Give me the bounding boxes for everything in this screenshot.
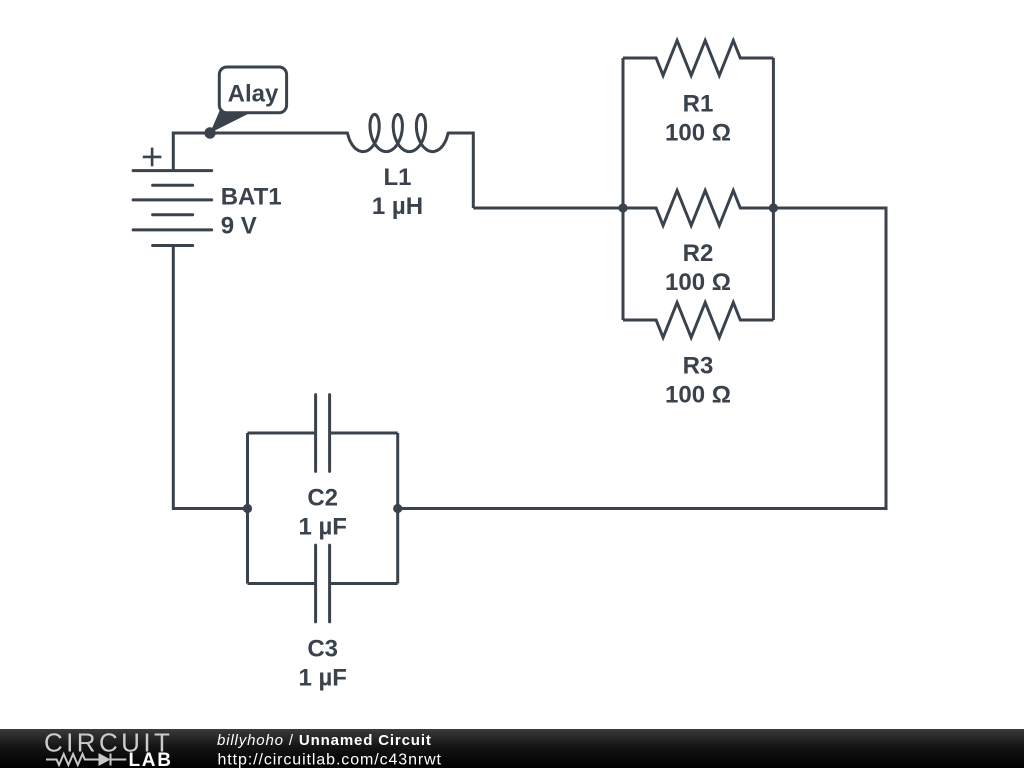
junction left of R2 bbox=[618, 203, 627, 212]
wire right side down bbox=[398, 208, 886, 509]
logo diode triangle bbox=[99, 753, 111, 766]
resistor R3 bbox=[623, 303, 773, 338]
logo resistor-diode symbol bbox=[46, 754, 126, 766]
junction left of capacitors bbox=[243, 504, 252, 513]
wire main to resistor bank bbox=[473, 207, 623, 210]
svg-text:C3: C3 bbox=[307, 635, 338, 662]
resistor R2 bbox=[623, 191, 773, 226]
svg-text:1 µF: 1 µF bbox=[298, 513, 347, 540]
svg-text:L1: L1 bbox=[383, 164, 411, 191]
capacitor bank left rail bbox=[246, 433, 249, 584]
svg-text:9 V: 9 V bbox=[221, 213, 257, 240]
wire battery top to node bbox=[173, 133, 347, 171]
svg-text:http://circuitlab.com/c43nrwt: http://circuitlab.com/c43nrwt bbox=[218, 752, 442, 768]
node label balloon tail bbox=[210, 108, 252, 134]
resistor bank left rail bbox=[622, 58, 625, 320]
svg-text:1 µF: 1 µF bbox=[298, 664, 347, 691]
svg-text:C2: C2 bbox=[307, 484, 338, 511]
svg-text:100 Ω: 100 Ω bbox=[665, 269, 731, 296]
footer bar bbox=[0, 729, 1024, 768]
svg-text:R1: R1 bbox=[683, 90, 714, 117]
svg-text:Alay: Alay bbox=[228, 81, 279, 108]
svg-text:R3: R3 bbox=[683, 352, 714, 379]
node label balloon box bbox=[219, 67, 286, 113]
capacitor C3 plates bbox=[316, 545, 330, 622]
battery plus sign bbox=[143, 148, 162, 167]
svg-text:100 Ω: 100 Ω bbox=[665, 119, 731, 146]
resistor R1 bbox=[623, 41, 773, 76]
junction right of R2 bbox=[769, 203, 778, 212]
svg-text:R2: R2 bbox=[683, 240, 714, 267]
inductor L1 bbox=[348, 114, 449, 151]
capacitor C2 leads bbox=[248, 432, 398, 435]
capacitor C3 leads bbox=[248, 582, 398, 585]
junction right of capacitors bbox=[393, 504, 402, 513]
battery BAT1 bbox=[133, 171, 212, 246]
svg-text:BAT1: BAT1 bbox=[221, 183, 282, 210]
svg-text:100 Ω: 100 Ω bbox=[665, 381, 731, 408]
capacitor C2 plates bbox=[316, 395, 330, 472]
node A dot bbox=[204, 127, 215, 138]
capacitor bank right rail bbox=[396, 433, 399, 584]
resistor bank right rail bbox=[772, 58, 775, 320]
wire inductor exit down to main level bbox=[448, 133, 473, 208]
wire battery bottom to capacitors bbox=[173, 246, 247, 509]
svg-text:billyhoho / Unnamed Circuit: billyhoho / Unnamed Circuit bbox=[217, 732, 432, 749]
svg-text:LAB: LAB bbox=[129, 750, 173, 768]
svg-text:1 µH: 1 µH bbox=[372, 193, 423, 220]
